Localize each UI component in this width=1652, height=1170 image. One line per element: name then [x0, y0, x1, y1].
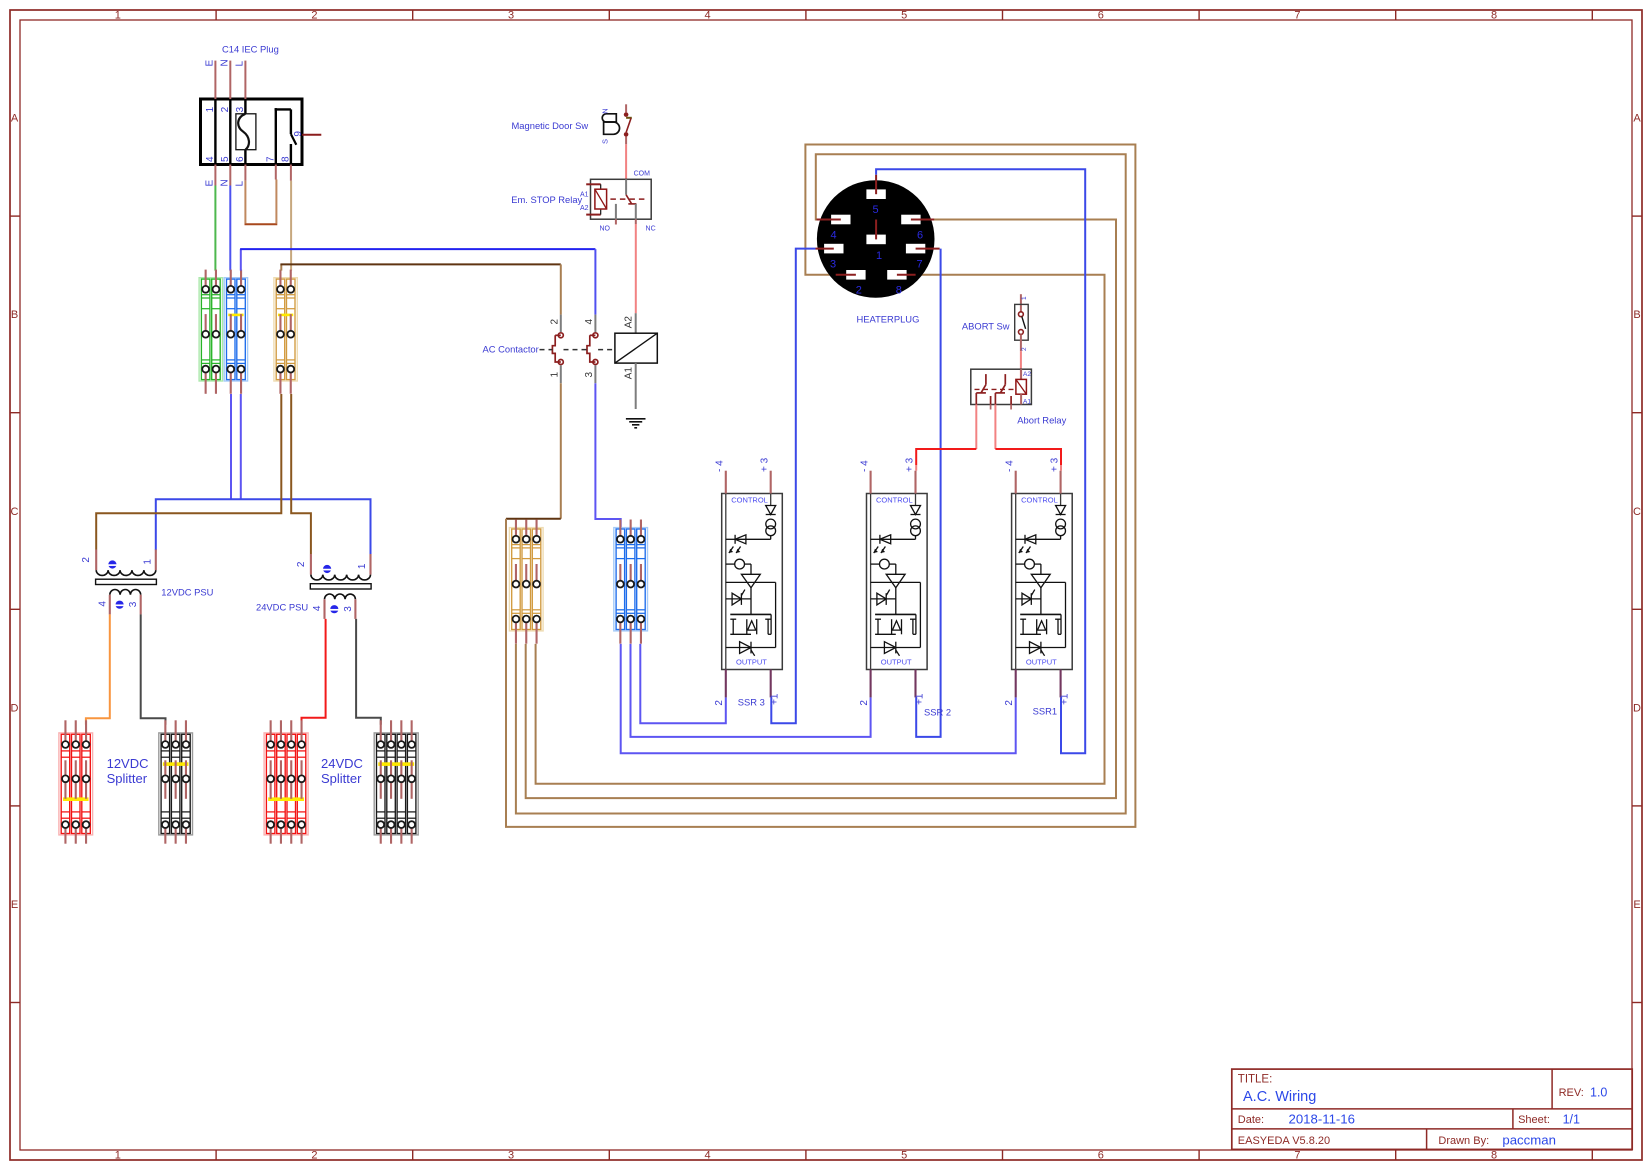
wire TB5 col2 to SSR2 pin 2 [631, 644, 871, 737]
svg-text:- 4: - 4 [1005, 460, 1016, 472]
wire 24V+ red T2 pin4 to 24VDC splitter [302, 619, 326, 725]
svg-text:1: 1 [115, 9, 121, 21]
svg-text:2: 2 [856, 285, 862, 297]
wire live TB3 to 24VDC PSU primary pin2 [291, 394, 311, 554]
svg-text:5: 5 [901, 1149, 907, 1161]
svg-text:SSR 3: SSR 3 [738, 697, 765, 708]
wire 24V- black T2 pin3 to 24V return block [356, 619, 381, 725]
contactor pin number labels [550, 319, 596, 378]
svg-text:+ 3: + 3 [760, 457, 771, 472]
svg-text:2: 2 [81, 557, 92, 563]
contactor coil box [615, 313, 657, 409]
svg-text:24VDC PSU: 24VDC PSU [256, 602, 308, 613]
svg-text:A1: A1 [624, 367, 635, 380]
svg-text:A.C. Wiring: A.C. Wiring [1243, 1089, 1316, 1105]
wire 12V- black T1 pin3 to 12V return block [141, 614, 166, 724]
wire SSR3 +1 to heaterplug pin 3 [771, 249, 815, 724]
svg-text:NC: NC [646, 226, 656, 233]
svg-text:3: 3 [830, 259, 836, 271]
svg-text:4: 4 [705, 1149, 711, 1161]
connector J1 C14 IEC Plug [201, 99, 303, 165]
svg-text:6: 6 [1098, 9, 1104, 21]
svg-text:4: 4 [312, 605, 323, 611]
svg-text:CONTROL: CONTROL [1021, 496, 1058, 505]
svg-text:N: N [220, 59, 231, 66]
svg-text:Em. STOP Relay: Em. STOP Relay [511, 194, 582, 205]
svg-text:2018-11-16: 2018-11-16 [1289, 1112, 1355, 1127]
svg-text:- 4: - 4 [715, 460, 726, 472]
svg-text:Magnetic Door Sw: Magnetic Door Sw [512, 120, 589, 131]
svg-text:2: 2 [714, 700, 725, 706]
svg-text:AC Contactor: AC Contactor [483, 344, 539, 355]
svg-text:9: 9 [293, 131, 304, 137]
svg-text:4: 4 [705, 9, 711, 21]
wire SSR2 +1 to heaterplug pin 7 [916, 249, 940, 737]
svg-text:6: 6 [1098, 1149, 1104, 1161]
wire TB5 col1 to SSR1 pin 2 [621, 644, 1016, 753]
svg-text:+1: +1 [770, 693, 781, 705]
wire switched L to live terminal [290, 181, 292, 271]
title block [1232, 1069, 1632, 1149]
svg-text:+1: +1 [915, 693, 926, 705]
svg-text:7: 7 [1294, 9, 1300, 21]
svg-text:A2: A2 [624, 316, 635, 329]
connector P1 HEATERPLUG [816, 175, 940, 298]
svg-text:OUTPUT: OUTPUT [1026, 658, 1057, 667]
wire N blue to neutral terminal [229, 186, 231, 271]
solid state relay SSR3 pin stubs and labels [714, 457, 781, 705]
svg-text:2: 2 [296, 561, 307, 567]
wire contactor pin1 down to live junction [560, 383, 562, 519]
svg-text:L: L [235, 181, 246, 187]
relay K2 Abort Relay [971, 369, 1032, 409]
C14 plug pin number labels [205, 106, 304, 162]
solid state relay SSR1 pin stubs and labels [1004, 457, 1071, 705]
svg-text:Drawn By:: Drawn By: [1438, 1135, 1489, 1147]
svg-text:COM: COM [634, 171, 651, 178]
svg-text:E: E [205, 180, 216, 187]
wire abort relay contact to SSR1 +3 [995, 405, 1061, 471]
wire TB4 col2 to heaterplug pin 6 loop [526, 220, 1116, 799]
transformer T1 12VDC PSU [81, 550, 156, 615]
svg-text:OUTPUT: OUTPUT [736, 658, 767, 667]
svg-text:8: 8 [896, 285, 902, 297]
solid state relay SSR2 pin stubs and labels [859, 457, 926, 705]
svg-text:OUTPUT: OUTPUT [881, 658, 912, 667]
svg-text:paccman: paccman [1502, 1133, 1556, 1148]
transformer T2 24VDC PSU [296, 554, 371, 619]
wire live junction horizontal [506, 518, 561, 520]
svg-text:N: N [601, 108, 610, 113]
svg-text:1: 1 [876, 250, 882, 262]
svg-text:3: 3 [508, 1149, 514, 1161]
svg-text:1/1: 1/1 [1563, 1113, 1580, 1127]
svg-text:B: B [11, 309, 18, 321]
wire Em STOP relay NC to contactor coil A2 [635, 224, 637, 313]
terminal block TB5 (neutral distribution, blue) [614, 520, 648, 644]
ground symbol at contactor coil A1 [626, 419, 646, 428]
terminal block TB7 12VDC splitter -(black) [159, 720, 193, 843]
svg-text:C: C [1633, 506, 1641, 518]
wire 12V+ orange T1 pin4 to 12VDC splitter [86, 614, 110, 724]
svg-text:+ 3: + 3 [904, 457, 915, 472]
label AC Contactor with dashed linkage [483, 344, 615, 355]
svg-text:12VDC: 12VDC [107, 756, 149, 771]
wire TB4 col3 to heaterplug pin 8 loop [536, 275, 1105, 784]
svg-text:N: N [220, 179, 231, 186]
svg-text:Abort Relay: Abort Relay [1017, 415, 1066, 426]
svg-text:8: 8 [1491, 9, 1497, 21]
wire mains E into plug pin 1 [214, 61, 216, 99]
svg-text:2: 2 [220, 106, 231, 112]
svg-text:NO: NO [599, 226, 610, 233]
svg-text:2: 2 [1021, 347, 1028, 351]
svg-text:SSR1: SSR1 [1033, 706, 1058, 717]
wire neutral bus TB2 to AC contactor pin 4 [240, 249, 595, 315]
svg-text:Splitter: Splitter [321, 771, 362, 786]
svg-text:A: A [1633, 113, 1641, 125]
fuse F1 inside C14 plug [236, 114, 256, 150]
wire N pin5 stub [229, 165, 231, 186]
svg-text:C14 IEC Plug: C14 IEC Plug [222, 44, 279, 55]
Em STOP relay pin labels [580, 171, 656, 233]
terminal block TB6 12VDC splitter +(red) [59, 720, 93, 843]
terminal block TB1 (earth, green) [199, 270, 222, 394]
svg-text:7: 7 [917, 259, 923, 271]
svg-text:2: 2 [859, 700, 870, 706]
svg-text:6: 6 [235, 156, 246, 162]
terminal block TB8 24VDC splitter +(red) [264, 720, 308, 843]
svg-text:REV:: REV: [1559, 1087, 1584, 1099]
svg-text:4: 4 [584, 319, 595, 325]
wire L pin6 stub [244, 165, 246, 181]
wire L loop pin6 to pin7 [245, 180, 278, 225]
terminal block TB4 (live distribution, tan) [509, 520, 543, 644]
svg-text:A1: A1 [1023, 399, 1031, 406]
svg-text:S: S [601, 139, 610, 144]
svg-text:1: 1 [550, 372, 561, 378]
svg-text:3: 3 [235, 106, 246, 112]
terminal block TB3 (live, orange) [274, 270, 297, 394]
svg-text:5: 5 [220, 156, 231, 162]
wire live TB3 to 12VDC PSU primary pin2 [96, 394, 281, 550]
svg-text:L: L [235, 61, 246, 67]
svg-text:+1: +1 [1060, 693, 1071, 705]
svg-text:6: 6 [917, 230, 923, 242]
wire SSR1 +1 to heaterplug pin 5 [876, 169, 1085, 753]
svg-text:5: 5 [873, 204, 879, 216]
svg-text:HEATERPLUG: HEATERPLUG [857, 314, 920, 325]
wire live bus TB3 to AC contactor pin 2 [280, 264, 560, 314]
svg-text:CONTROL: CONTROL [876, 496, 913, 505]
magnet symbol of Magnetic Door Sw [601, 108, 620, 144]
solid state relay SSR2 [867, 494, 928, 670]
wire contactor pin3 down to SSR common bus [595, 383, 620, 529]
svg-text:12VDC PSU: 12VDC PSU [161, 587, 213, 598]
wire E green to earth terminal [214, 186, 216, 271]
svg-text:8: 8 [1491, 1149, 1497, 1161]
svg-text:CONTROL: CONTROL [731, 496, 768, 505]
switch S1 ABORT Sw [1015, 294, 1028, 351]
svg-text:3: 3 [343, 606, 354, 612]
relay K1 Em. STOP Relay [586, 179, 651, 224]
svg-text:EASYEDA V5.8.20: EASYEDA V5.8.20 [1238, 1135, 1330, 1147]
svg-text:D: D [1633, 702, 1641, 714]
svg-text:E: E [205, 60, 216, 67]
svg-text:24VDC: 24VDC [321, 756, 363, 771]
svg-text:4: 4 [831, 230, 837, 242]
svg-text:SSR 2: SSR 2 [924, 707, 951, 718]
svg-text:7: 7 [1294, 1149, 1300, 1161]
svg-text:3: 3 [128, 601, 139, 607]
net labels E N L above plug [205, 59, 246, 66]
wire mains L into plug pin 3 [244, 61, 246, 99]
solid state relay SSR3 [722, 494, 783, 670]
terminal block TB9 24VDC splitter -(black) [374, 720, 418, 843]
svg-text:A: A [11, 113, 19, 125]
wire mains N into plug pin 2 [229, 61, 231, 99]
svg-text:2: 2 [311, 9, 317, 21]
svg-text:B: B [1633, 309, 1640, 321]
svg-text:3: 3 [584, 372, 595, 378]
svg-text:- 4: - 4 [860, 460, 871, 472]
wire neutral TB2 to transformer primaries [156, 394, 371, 555]
wire door switch to Em STOP relay COM [625, 144, 627, 179]
svg-text:1.0: 1.0 [1590, 1086, 1607, 1100]
svg-text:Date:: Date: [1238, 1114, 1264, 1126]
svg-text:A2: A2 [1023, 371, 1031, 378]
svg-text:4: 4 [205, 156, 216, 162]
svg-text:A2: A2 [580, 205, 589, 212]
svg-text:8: 8 [281, 156, 292, 162]
svg-text:Sheet:: Sheet: [1518, 1114, 1550, 1126]
svg-text:1: 1 [357, 563, 368, 569]
svg-text:Splitter: Splitter [107, 771, 148, 786]
svg-text:1: 1 [1021, 296, 1028, 300]
wire pin8 stub [290, 165, 292, 181]
svg-text:E: E [11, 899, 18, 911]
svg-text:2: 2 [1004, 700, 1015, 706]
terminal block TB2 (neutral, blue) [224, 270, 247, 394]
svg-text:5: 5 [901, 9, 907, 21]
svg-text:7: 7 [265, 156, 276, 162]
switch SW1 inside C14 plug (pins 7-8-9) [275, 108, 297, 164]
solid state relay SSR1 [1012, 494, 1073, 670]
contactor KM1 AC Contactor contact 3-4 [587, 315, 598, 384]
svg-text:1: 1 [115, 1149, 121, 1161]
wire E pin4 stub [214, 165, 216, 186]
wire pin 9 stub [302, 134, 321, 136]
wire TB5 col3 to SSR3 pin 2 [640, 644, 726, 723]
svg-text:+ 3: + 3 [1050, 457, 1061, 472]
svg-text:2: 2 [550, 319, 561, 325]
wire live junction to bottom loop (heaterplug pin 2) [506, 145, 1135, 827]
svg-text:E: E [1633, 899, 1640, 911]
svg-text:1: 1 [142, 559, 153, 565]
svg-text:ABORT Sw: ABORT Sw [962, 321, 1010, 332]
svg-text:TITLE:: TITLE: [1238, 1074, 1273, 1086]
svg-text:D: D [11, 702, 19, 714]
svg-text:3: 3 [508, 9, 514, 21]
contactor KM1 AC Contactor contact 1-2 [552, 315, 563, 384]
svg-text:2: 2 [311, 1149, 317, 1161]
wire pin7 stub [275, 165, 277, 180]
wire ABORT Sw to abort relay coil A2 [1020, 351, 1022, 379]
svg-text:1: 1 [205, 106, 216, 112]
switch contacts of Magnetic Door Sw [624, 104, 632, 144]
svg-text:C: C [11, 506, 19, 518]
wire abort relay contact to SSR2 +3 [916, 405, 976, 471]
heaterplug pin number labels [830, 204, 923, 297]
wire TB4 col1 to heaterplug pin 4 loop [516, 154, 1126, 813]
net labels E N L below plug [205, 179, 246, 186]
svg-text:4: 4 [97, 601, 108, 607]
